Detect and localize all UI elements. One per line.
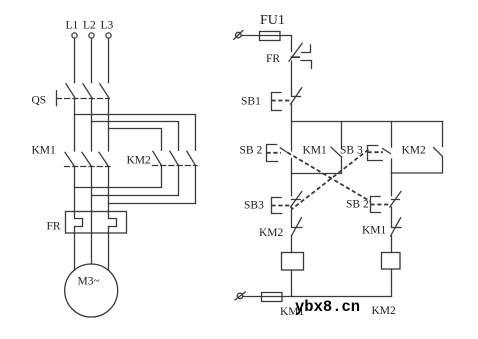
terminal L1 xyxy=(72,33,77,38)
svg-text:SB1: SB1 xyxy=(241,96,261,108)
wire KM2 pole2 join xyxy=(92,166,179,196)
contactor KM2 label xyxy=(127,155,152,167)
switch QS linkage dashed xyxy=(57,98,110,100)
wire fuse FU1 to corner xyxy=(280,36,292,52)
pushbutton SB1 label xyxy=(241,96,261,108)
pushbutton SB3 NO label xyxy=(340,145,363,157)
wire terminal to fuse FU1 xyxy=(241,35,259,37)
pushbutton SB1 linkage dashed xyxy=(272,100,291,102)
wire SB2 NC to KM1 NC xyxy=(391,207,393,226)
thermal contact FR label xyxy=(266,53,280,65)
wire L2 down to QS xyxy=(91,38,93,82)
wire FR contact to SB1 xyxy=(291,61,293,96)
contactor KM1 main blade pole2 xyxy=(82,152,92,166)
node L1 label xyxy=(66,20,79,32)
pushbutton SB1 cap xyxy=(272,93,282,111)
wire SB3 NC to KM2 NC xyxy=(291,207,293,226)
thermal relay FR label xyxy=(47,221,61,233)
pushbutton SB1 bar xyxy=(292,96,301,98)
wire KM1 pole3 down xyxy=(108,167,110,212)
wire phase1 QS to KM1 xyxy=(74,99,76,152)
wire FR to motor V xyxy=(91,233,93,264)
coil KM2 label xyxy=(372,305,397,317)
control: terminal top-left slash xyxy=(234,31,243,40)
switch QS blade pole1 xyxy=(66,84,75,99)
contact KM1 aux blade xyxy=(331,147,342,157)
control: terminal bottom-left xyxy=(237,293,243,299)
pushbutton SB2 blade xyxy=(280,148,287,153)
pushbutton SB3 cap xyxy=(368,146,383,161)
node L2 label xyxy=(83,20,96,32)
motor M1 label xyxy=(78,276,100,288)
svg-text:FR: FR xyxy=(47,221,61,233)
wire FR to motor U xyxy=(74,233,76,270)
contact KM1 interlock blade xyxy=(391,218,401,236)
svg-text:KM1: KM1 xyxy=(303,145,328,157)
pushbutton SB2 linkage dashed xyxy=(267,152,282,154)
svg-text:KM2: KM2 xyxy=(372,305,397,317)
thermal contact FR hook upper xyxy=(302,45,311,53)
pushbutton SB2 label xyxy=(240,145,263,157)
contact KM2 aux label xyxy=(402,145,427,157)
contact KM2 interlock blade xyxy=(291,218,301,236)
thermal relay FR heater pole3 xyxy=(109,212,117,234)
control: terminal bottom-left slash xyxy=(235,292,245,300)
pushbutton SB1 blade xyxy=(291,88,302,104)
wire L3 down to QS xyxy=(108,38,110,82)
svg-text:KM2: KM2 xyxy=(259,227,284,239)
wire branch phase3 to KM2 pole1 xyxy=(109,129,162,151)
fuse FU1 label xyxy=(260,13,285,28)
coil KM1 label xyxy=(280,306,305,318)
wire bus to KM2 aux xyxy=(442,122,444,147)
wire coil KM2 to bottom xyxy=(391,269,393,297)
wire L1 down to QS xyxy=(74,38,76,82)
control: terminal top-left xyxy=(236,32,242,38)
pushbutton SB2 cap xyxy=(267,145,278,162)
watermark ybx8.cn xyxy=(295,298,360,316)
contact KM2 aux blade xyxy=(434,148,443,157)
wire phase2 QS to KM1 xyxy=(91,99,93,152)
contact KM1 interlock label xyxy=(362,225,387,237)
wire coil KM1 to bottom xyxy=(291,270,293,297)
wire phase3 QS to KM1 xyxy=(108,99,110,152)
wire SB2 down xyxy=(291,158,293,173)
pushbutton SB3 NC bar xyxy=(292,199,301,201)
thermal relay FR wire pole2 xyxy=(91,212,93,234)
wire KM1 pole2 down xyxy=(91,167,93,212)
contact KM1 aux label xyxy=(303,145,328,157)
wire bus to SB2 xyxy=(291,122,293,151)
svg-text:KM1: KM1 xyxy=(362,225,387,237)
svg-text:FU1: FU1 xyxy=(260,13,285,28)
contactor KM1 main blade pole3 xyxy=(99,152,109,166)
switch QS handle xyxy=(56,91,58,106)
contactor KM2 main blade pole3 xyxy=(187,151,196,165)
wire KM2 pole1 join xyxy=(75,166,162,188)
fuse FU2 body xyxy=(262,293,283,302)
pushbutton SB3 linkage dashed xyxy=(368,151,384,153)
pushbutton SB2 NC bar xyxy=(392,199,400,201)
wire KM1 pole1 down xyxy=(74,167,76,212)
thermal contact FR blade xyxy=(289,44,302,62)
svg-text:L2: L2 xyxy=(83,20,96,32)
motor M1 circle xyxy=(65,264,118,317)
terminal L3 xyxy=(106,33,111,38)
wire FR to motor W xyxy=(108,233,110,270)
pushbutton SB2 NC cap xyxy=(371,197,381,213)
svg-text:SB 2: SB 2 xyxy=(240,145,263,157)
svg-text:SB 3: SB 3 xyxy=(340,145,363,157)
wire branch phase1 to KM2 pole3 xyxy=(75,115,196,151)
wire control bus xyxy=(292,121,443,123)
wire through fuse FU1 xyxy=(260,35,281,37)
switch QS label xyxy=(32,95,47,107)
coil KM2 xyxy=(382,253,401,270)
pushbutton SB3 NC linkage dashed xyxy=(272,205,291,207)
pushbutton SB3 NC label xyxy=(244,200,264,212)
wire SB2 node down xyxy=(291,174,293,196)
wire bus to SB3 xyxy=(391,122,393,148)
fuse FU1 body xyxy=(260,32,281,41)
node L3 label xyxy=(101,20,114,32)
wire KM2 aux join xyxy=(392,157,443,174)
contact KM2 interlock bar xyxy=(292,227,302,229)
thermal contact FR bar xyxy=(292,56,300,58)
pushbutton SB2 NC label xyxy=(346,199,369,211)
contactor KM2 main blade pole2 xyxy=(170,151,179,165)
wire SB3 down xyxy=(391,159,393,173)
svg-text:QS: QS xyxy=(32,95,47,107)
contact KM1 interlock bar xyxy=(392,227,402,229)
svg-text:ybx8.cn: ybx8.cn xyxy=(295,298,360,316)
switch QS blade pole2 xyxy=(83,84,92,99)
wire KM2 pole3 join xyxy=(109,166,196,204)
terminal L2 xyxy=(89,33,94,38)
wire bottom terminal to fuse xyxy=(243,296,262,298)
contactor KM1 main blade pole1 xyxy=(65,152,75,166)
pushbutton SB3 NC cap xyxy=(272,198,282,214)
contactor KM2 linkage dashed xyxy=(153,165,198,167)
wire branch phase2 to KM2 pole2 xyxy=(92,122,179,151)
wire KM1 aux join xyxy=(292,157,342,174)
coil KM1 xyxy=(282,253,304,271)
pushbutton SB3 NC blade xyxy=(291,192,302,208)
wire SB1 to bus xyxy=(291,104,293,121)
thermal relay FR heater pole1 xyxy=(75,212,83,234)
wire bus to KM1 aux xyxy=(341,122,343,148)
contactor KM1 linkage dashed xyxy=(65,166,111,168)
wire bottom xyxy=(262,296,392,298)
thermal relay FR box xyxy=(66,212,127,234)
contactor KM2 main blade pole1 xyxy=(153,151,162,165)
linkage SB3 cross dashed xyxy=(292,150,369,210)
svg-text:SB 2: SB 2 xyxy=(346,199,369,211)
svg-text:KM1: KM1 xyxy=(32,145,57,157)
wire SB3 node down xyxy=(391,173,393,196)
wire KM1 NC to coil KM2 xyxy=(391,236,393,253)
svg-text:L1: L1 xyxy=(66,20,79,32)
wire KM2 NC to coil KM1 xyxy=(291,236,293,253)
svg-text:M3~: M3~ xyxy=(78,276,100,288)
contact KM2 interlock label xyxy=(259,227,284,239)
thermal contact FR hook lower xyxy=(301,61,312,69)
svg-text:FR: FR xyxy=(266,53,280,65)
pushbutton SB3 blade xyxy=(383,148,391,153)
svg-text:KM2: KM2 xyxy=(402,145,427,157)
svg-text:SB3: SB3 xyxy=(244,200,264,212)
linkage SB2 cross dashed xyxy=(288,153,371,202)
svg-text:L3: L3 xyxy=(101,20,114,32)
svg-text:KM2: KM2 xyxy=(127,155,152,167)
pushbutton SB2 NC linkage dashed xyxy=(371,204,390,206)
contactor KM1 label xyxy=(32,145,57,157)
switch QS blade pole3 xyxy=(100,84,110,99)
pushbutton SB2 NC blade xyxy=(390,192,401,208)
